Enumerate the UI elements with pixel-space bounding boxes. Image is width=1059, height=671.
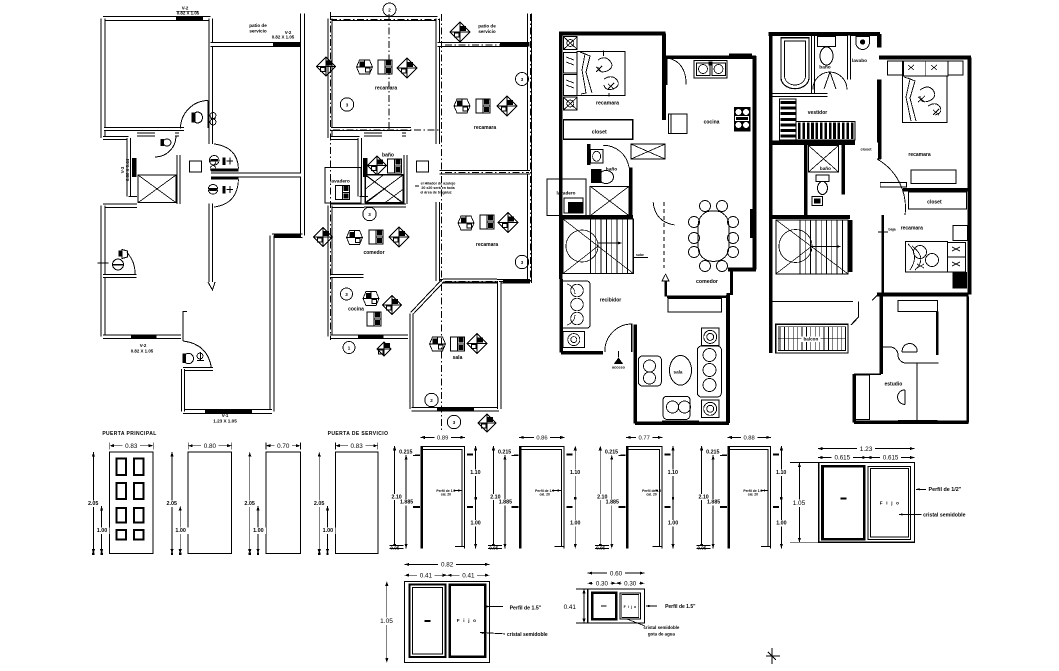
door frame 0.88: bottom 0.05 mark — [695, 546, 708, 552]
W2 right sash fixed (thick) — [450, 585, 486, 657]
P3 acceso arrow — [614, 358, 624, 365]
svg-text:lavadero: lavadero — [330, 179, 350, 185]
door frame 0.86: right jamb (double) — [563, 446, 565, 548]
svg-text:0.41: 0.41 — [564, 604, 577, 611]
P3 staircase — [563, 219, 634, 274]
svg-text:patio de: patio de — [478, 24, 496, 29]
P2 wall: interior wall right of hall upper segment — [436, 131, 441, 145]
svg-text:0.30: 0.30 — [624, 580, 637, 587]
svg-text:comedor: comedor — [696, 279, 718, 285]
W1 left sash (movable, thick) — [823, 466, 865, 539]
P3 label sala — [671, 370, 684, 376]
P3 bed blanket squiggles — [598, 58, 618, 90]
P1 wall: left exterior wall lower — [101, 206, 106, 337]
P3 wall: sala bottom wall — [635, 421, 729, 425]
P2 axis bubble left upper — [340, 98, 353, 111]
P1 wall: niche vertical wall with window V-3 — [126, 138, 131, 197]
P1 wall: small bath top wall segments — [137, 133, 155, 137]
door elevation 0.80: height dim 2.05 — [171, 452, 173, 554]
svg-text:0.89: 0.89 — [437, 435, 448, 441]
P3 sala sofa right (3 seats) — [697, 346, 721, 397]
P1 wall: interior wall right of hall upper — [209, 131, 214, 144]
W1 right sash fixed (double line) — [868, 466, 910, 539]
svg-text:closet: closet — [592, 130, 607, 136]
svg-text:0.05: 0.05 — [596, 546, 605, 551]
svg-text:sube: sube — [636, 253, 644, 257]
ceiling-symbol cluster recamara BR: outlet diamond — [498, 213, 518, 233]
P4 wall: recamara1 top wall — [879, 56, 971, 60]
ceiling-symbol cluster sala: outlet diamond — [467, 334, 487, 354]
P4 label baño lower — [819, 166, 832, 172]
P3 vestibule X-box — [631, 144, 665, 159]
P1 entry WC toilet — [184, 353, 194, 363]
P2 baño symbols: switch square — [388, 159, 402, 173]
P1 divider door arc upper — [214, 144, 238, 169]
P4 wall: estudio left wall upper — [879, 297, 883, 375]
P4 wall corner diagonal near balcon — [851, 317, 859, 325]
svg-text:Perfil de 1.5": Perfil de 1.5" — [665, 604, 696, 610]
svg-text:gota de agua: gota de agua — [648, 632, 676, 637]
P1 wall: niche bottom connector — [129, 196, 138, 198]
W1 dim 1.05 — [798, 463, 800, 543]
P3 washing machine (solid) — [568, 202, 583, 213]
ceiling-symbol cluster sala: switch square — [451, 337, 465, 351]
svg-text:1.885: 1.885 — [707, 500, 720, 506]
svg-text:cocina: cocina — [348, 307, 364, 313]
P3 bedroom nightstand fan bottom — [564, 97, 578, 110]
P1 square fixture (shower box) — [190, 161, 202, 172]
svg-text:cal. 20: cal. 20 — [646, 493, 656, 497]
P3 bed — [577, 51, 625, 95]
svg-text:0.215: 0.215 — [605, 449, 618, 455]
P3 window bar sala bottom — [662, 421, 699, 425]
P1 window V-2 bar on bottom wall — [131, 334, 157, 338]
svg-text:servicio: servicio — [249, 29, 267, 34]
door frame elevation 0.77: width dimension — [626, 436, 662, 438]
door frame 0.89: left dims 2.10 / 1.885 / 0.215 — [394, 446, 396, 549]
P2 outlet diamond patio — [450, 22, 470, 42]
P4 wall: corridor wall stub — [878, 143, 882, 160]
P4 wall: recamara2 bottom wall — [877, 293, 969, 297]
svg-text:estudio: estudio — [885, 382, 903, 388]
door frame elevation 0.88: width dimension — [727, 436, 770, 438]
P3 sala oval coffee table — [670, 356, 692, 386]
door frame elevation 0.89: width dimension — [420, 436, 465, 438]
P2 axis bubble top — [383, 3, 396, 16]
P2 square fixture (shower box) — [417, 161, 429, 172]
P3 sala corner table top — [702, 328, 719, 345]
P2 cocina symbols: switch square — [367, 312, 381, 326]
P3 comedor dining table — [698, 211, 729, 261]
P1 wall: left exterior wall upper — [101, 19, 106, 139]
P2 wall: left exterior wall upper — [328, 19, 333, 139]
svg-text:1.10: 1.10 — [570, 470, 580, 476]
svg-text:1.10: 1.10 — [470, 470, 480, 476]
P2 wall: right exterior wall — [527, 14, 532, 284]
P2 wall below bath X-box — [364, 204, 406, 208]
P2 window bar lower right bedroom — [503, 279, 530, 283]
P2 wall: bottom wall of lower right bedroom — [440, 279, 531, 284]
svg-text:baja: baja — [888, 228, 896, 232]
svg-text:V-2: V-2 — [140, 343, 147, 348]
P2 cocina symbols: lamp hexagon — [363, 292, 379, 306]
W2 dim 0.82 — [405, 563, 490, 565]
svg-text:acceso: acceso — [612, 366, 626, 370]
svg-text:closet: closet — [861, 148, 873, 152]
P4 estudio desk return — [916, 363, 918, 422]
door elevation 0.83: height dim 2.05 — [92, 452, 94, 554]
W1 handle dash — [841, 498, 847, 500]
ceiling-symbol cluster sala: lamp hexagon — [430, 337, 446, 351]
svg-text:1.885: 1.885 — [606, 500, 619, 506]
W3 left sash (thick) — [592, 593, 616, 619]
door frame elevation 0.86: width dimension — [519, 436, 565, 438]
P4 estudio desk — [881, 347, 939, 363]
door frame 0.86: head — [519, 445, 565, 447]
P3 wall: bath right wall — [629, 167, 633, 216]
door frame 0.77: left dims 2.10 / 1.885 / 0.215 — [599, 446, 601, 549]
svg-text:1.23 X 1.05: 1.23 X 1.05 — [213, 419, 237, 424]
P2 washer squares in lavadero — [336, 186, 350, 200]
P2 lavadero room outline — [325, 168, 361, 203]
P3 comedor console rect — [668, 299, 721, 313]
P1 wall: right wall of upper-left bedroom — [208, 19, 213, 131]
door frame 0.89: left jamb (thick) — [420, 447, 423, 549]
P4 wall: toilet-lavabo divider — [847, 36, 851, 80]
P4 wall: bath2 left wall — [804, 145, 808, 217]
P1 wall: patio top wall of right bedroom — [211, 42, 303, 47]
ceiling-symbol cluster recamara TL: switch square — [378, 60, 392, 74]
W2 dims 0.41 + 0.41 — [405, 574, 448, 576]
P3 wall: recibidor bottom wall — [561, 351, 603, 355]
P1 toilet in upper-left bedroom — [193, 112, 203, 123]
svg-text:0.05: 0.05 — [390, 546, 399, 551]
svg-text:recamara: recamara — [375, 86, 397, 92]
P3 wall: stairs top wall — [561, 215, 633, 219]
ceiling-symbol cluster recamara R: switch square — [476, 99, 490, 113]
ceiling-symbol cluster recamara TL: lamp hexagon — [357, 60, 373, 74]
svg-text:1.00: 1.00 — [323, 528, 334, 534]
P4 wall: right exterior wall — [968, 58, 972, 295]
P3 lavadero room outline — [547, 179, 586, 216]
svg-text:0.77: 0.77 — [639, 435, 650, 441]
P1 lavabo cone in lower bath — [119, 251, 122, 257]
P4 bath2 shower X-box — [809, 146, 839, 173]
P2 wall: sala diagonal corner wall — [412, 281, 443, 314]
window elevation W3 (0.60 x 0.41): outer frame — [588, 589, 645, 623]
door frame 0.86: bottom 0.05 mark — [487, 546, 500, 552]
svg-text:0.615: 0.615 — [883, 455, 899, 462]
svg-text:0.05: 0.05 — [489, 546, 498, 551]
svg-text:baño: baño — [820, 166, 831, 171]
P2 wall: niche step horizontal — [330, 136, 360, 140]
P3 wall: sala left wall — [633, 325, 637, 424]
P2 wall: step wall below niche — [330, 203, 364, 208]
P4 recamara1 bed — [902, 76, 947, 123]
P4 bathtub — [781, 38, 809, 89]
svg-text:recamara: recamara — [476, 242, 498, 248]
P2 axis bubble below sala — [447, 415, 460, 428]
P3 wall: top wall bedroom — [559, 32, 666, 36]
P4 staircase upper — [776, 220, 848, 274]
P4 bath2 toilet — [816, 175, 829, 182]
door frame 0.86: right dims 1.10 / 1.00 — [574, 446, 576, 549]
P3 wall: kitchen left wall + door — [665, 57, 668, 85]
P1 wall: right exterior wall lower — [270, 236, 275, 412]
svg-text:cristal semidoble: cristal semidoble — [923, 513, 965, 519]
P1 window V-2 bar on top wall — [176, 16, 203, 21]
P3 wall: left exterior wall — [559, 34, 563, 280]
svg-text:cocina: cocina — [704, 120, 720, 126]
P2 wall: top wall of upper-left bedroom — [330, 16, 438, 21]
door elevation 0.83: dim 1.00 — [101, 506, 103, 554]
svg-text:cal. 20: cal. 20 — [540, 493, 550, 497]
P4 wall: tub-toilet divider — [811, 36, 815, 94]
P3 wall: comedor bottom wall — [667, 295, 728, 298]
P1 divider door symbol circle lower — [208, 185, 218, 195]
svg-text:closet: closet — [927, 200, 942, 206]
P3 bedroom nightstand fan top — [564, 37, 578, 50]
P1 wall: bottom wall of upper-left bedroom — [104, 127, 184, 131]
P4 closet hatch left block — [780, 99, 797, 140]
P2 axis bubble center — [363, 207, 376, 220]
P1 wall: lower bath wall — [103, 274, 137, 278]
door elevation 0.83: leaf rectangle — [110, 452, 154, 554]
P2 wall: niche bottom connector — [360, 196, 369, 198]
svg-text:comedor: comedor — [363, 250, 384, 256]
P2 wall: sala bottom wall — [412, 407, 500, 412]
P1 divider door symbol circle upper — [209, 156, 219, 166]
svg-text:1.885: 1.885 — [400, 500, 413, 506]
door frame 0.86: left dims 2.10 / 1.885 / 0.215 — [492, 446, 494, 549]
P2 wall: patio top wall of right bedroom — [438, 42, 530, 47]
svg-text:1.00: 1.00 — [253, 528, 264, 534]
svg-text:0.41: 0.41 — [462, 572, 475, 579]
P2 cocina symbols: outlet diamond — [383, 296, 402, 315]
P3 wall: comedor right wall step — [730, 270, 733, 296]
P4 door jamb diagonal estudio — [872, 295, 878, 301]
svg-text:0.05: 0.05 — [697, 546, 706, 551]
door panels (8 lites) — [117, 459, 126, 475]
P2 wall: bottom wall of lower-left room — [330, 334, 408, 339]
door elevation 0.80: width dimension — [188, 445, 231, 447]
P4 recamara1 side table right — [948, 61, 963, 75]
svg-text:recibidor: recibidor — [600, 298, 621, 304]
P1 window bar on patio wall — [273, 42, 301, 47]
P4 wall: estudio bottom wall — [854, 420, 969, 424]
P1 closet X-box — [138, 175, 176, 203]
P2 wall: sala left wall — [410, 313, 414, 409]
svg-text:2.05: 2.05 — [314, 501, 325, 507]
P4 balcon railing grid — [776, 324, 848, 353]
P1 fixture codes right wall — [210, 159, 216, 165]
door frame 0.89: bottom 0.05 mark — [388, 546, 401, 552]
svg-text:2.05: 2.05 — [88, 501, 99, 507]
P4 wall: estudio right inner wall — [936, 311, 939, 355]
P1 divider door black jambs — [211, 168, 239, 171]
svg-text:PUERTA DE SERVICIO: PUERTA DE SERVICIO — [328, 431, 389, 437]
P4 label balcon — [801, 337, 820, 343]
P2 window bar sala bottom — [437, 407, 474, 411]
W2 left sash (thick with inner line) — [409, 585, 445, 658]
svg-text:0.83: 0.83 — [125, 443, 138, 450]
svg-text:el Hilador de azulejo: el Hilador de azulejo — [421, 182, 457, 186]
P2 baño symbols: diamond — [368, 156, 387, 175]
P1 wall: porch left wall — [181, 369, 185, 412]
W2 handle dash — [425, 620, 431, 622]
P3 wall: kitchen top wall — [666, 56, 756, 60]
svg-text:cal. 20: cal. 20 — [748, 493, 758, 497]
svg-text:20 x20 será en toda: 20 x20 será en toda — [421, 186, 455, 190]
P1 wall: step wall with window — [272, 233, 303, 238]
W3 right sash fixed — [620, 593, 641, 619]
door elevation 0.80: dim 1.00 — [179, 506, 181, 554]
P4 recamara1 headboard — [903, 61, 948, 76]
door frame 0.89: right dims 1.10 / 1.00 — [475, 446, 477, 549]
svg-text:cristal semidoble: cristal semidoble — [643, 625, 679, 630]
svg-text:0.30: 0.30 — [596, 580, 609, 587]
P2 axis bubble sala interior — [425, 393, 438, 406]
P1 wall: right exterior wall upper — [300, 14, 305, 236]
svg-text:F i j o: F i j o — [624, 605, 637, 609]
door frame 0.88: left jamb (thick) — [727, 447, 730, 549]
door frame 0.88: left dims 2.10 / 1.885 / 0.215 — [701, 446, 703, 549]
P4 door arc recamara1 — [877, 159, 905, 215]
P3 kitchen stove — [734, 107, 751, 131]
P1 wall: interior wall right of hall lower — [209, 203, 214, 282]
svg-text:1.10: 1.10 — [668, 470, 678, 476]
window elevation W2 (0.82 x 1.05): outer frame — [405, 581, 490, 662]
svg-text:1.23: 1.23 — [860, 446, 873, 453]
svg-text:1.885: 1.885 — [499, 500, 512, 506]
ceiling-symbol cluster recamara TL: outlet diamond — [397, 58, 417, 78]
svg-text:lavadero: lavadero — [557, 191, 576, 196]
P4 recamara2 bed — [906, 242, 948, 273]
svg-text:0.215: 0.215 — [498, 449, 511, 455]
P3 window bar comedor right wall — [750, 209, 754, 238]
svg-text:el área de tragaluz: el área de tragaluz — [420, 191, 452, 195]
P3 kitchen fridge — [669, 114, 688, 134]
P3 closet rectangle — [564, 120, 633, 140]
W3 dim 0.60 — [588, 572, 645, 574]
P2 wall: divider between right bedrooms — [440, 170, 531, 175]
svg-text:1.00: 1.00 — [776, 521, 786, 527]
P3 sala loveseat left — [638, 356, 661, 386]
P1 wall: bottom wall of entry porch — [183, 409, 272, 414]
door elevation 0.70: height dim 2.05 — [249, 452, 251, 554]
P3 sala corner table bottom — [702, 400, 719, 417]
P2 outlet diamond left wall lower — [314, 228, 333, 247]
svg-text:vestidor: vestidor — [808, 110, 828, 116]
P4 wall: estudio left wall lower — [852, 374, 856, 422]
P4 window bar estudio bottom — [898, 420, 937, 424]
P2 wall: right wall of upper-left bedroom — [435, 19, 440, 131]
P1 wall: top wall of upper-left bedroom — [103, 16, 211, 21]
P4 estudio bookshelf — [855, 375, 870, 420]
svg-text:0.70: 0.70 — [277, 443, 290, 450]
svg-text:0.60 X 0.44: 0.60 X 0.44 — [125, 158, 130, 181]
P2 wall: left exterior wall lower — [328, 206, 333, 337]
P3 wall: left wall lower end — [559, 279, 563, 353]
svg-text:baño: baño — [382, 153, 394, 159]
P4 recamara2 pillows — [948, 243, 966, 273]
P1 wall: bottom wall of lower-left room — [103, 334, 181, 339]
svg-text:patio de: patio de — [249, 23, 267, 28]
P4 wall: stairs top wall — [772, 215, 850, 219]
P3 stairs direction arrow — [598, 242, 620, 244]
P4 wall: vestidor top wall — [772, 93, 827, 97]
door frame 0.86: left jamb (thick) — [519, 447, 522, 549]
svg-text:2.05: 2.05 — [167, 501, 178, 507]
P3 bath shower X-box — [590, 186, 629, 215]
P4 wall: bath2 right wall — [842, 145, 846, 195]
P1 door arc into upper-left bedroom — [181, 101, 209, 129]
P4 shelf by door — [880, 183, 906, 187]
P4 wall: estudio outer right wall — [966, 297, 969, 423]
svg-text:0.82 X 1.05: 0.82 X 1.05 — [131, 349, 154, 354]
svg-text:2.05: 2.05 — [244, 501, 255, 507]
svg-text:sala: sala — [674, 370, 683, 375]
P4 toilet top bath — [818, 37, 836, 47]
P3 bath door arc — [603, 145, 629, 167]
door frame 0.88: right dims 1.10 / 1.00 — [780, 446, 782, 549]
window elevation W1 (1.23 x 1.05): outer frame — [819, 463, 915, 543]
P4 double door arcs bath — [813, 72, 830, 89]
door elevation 0.83: leaf rectangle — [336, 452, 378, 554]
P1 wall: below entry door — [183, 367, 213, 371]
P4 recamara2 side tables — [953, 226, 968, 241]
P1 fixture code circles — [210, 113, 216, 119]
door elevation 0.70: leaf rectangle — [266, 452, 300, 554]
P4 closet hatch bottom block — [796, 122, 855, 141]
survey cross mark bottom right — [766, 648, 780, 664]
P1 window V-3 bar (vertical) — [132, 158, 137, 177]
P3 bed headboard pillows — [564, 52, 578, 73]
svg-text:0.82 X 1.05: 0.82 X 1.05 — [272, 35, 295, 40]
svg-text:1.10: 1.10 — [776, 470, 786, 476]
svg-text:F i j o: F i j o — [880, 501, 900, 506]
ceiling-symbol cluster recamara BR: switch square — [480, 215, 494, 229]
P4 landing line — [772, 301, 853, 303]
P3 window bar kitchen top — [729, 53, 752, 57]
P2 outlet diamond left wall upper — [317, 57, 336, 76]
svg-text:baño: baño — [819, 65, 831, 71]
P4 recamara1 side table left — [888, 61, 903, 75]
P2 axis bubble cocina — [341, 288, 353, 300]
svg-text:recamara: recamara — [474, 125, 496, 131]
P4 closet rect — [909, 192, 967, 209]
svg-text:cristal semidoble: cristal semidoble — [507, 632, 548, 638]
P2 outlet diamond below bottom wall — [377, 342, 391, 356]
svg-text:1.00: 1.00 — [175, 528, 186, 534]
P3 sala loveseat bottom — [663, 396, 690, 419]
P2 window bar on patio wall — [500, 42, 528, 47]
ceiling-symbol cluster recamara R: outlet diamond — [497, 96, 517, 116]
P3 wall: comedor bottom exterior — [728, 268, 756, 272]
P1 bath door arc — [155, 136, 176, 157]
P2 wall: lower bath wall — [330, 274, 364, 278]
door elevation 0.70: width dimension — [266, 445, 300, 447]
door frame 0.77: right dims 1.10 / 1.00 — [672, 446, 674, 549]
door elevation 0.83: dim 1.00 — [327, 506, 329, 554]
P4 bath2 washbasin — [812, 196, 823, 205]
door frame 0.77: left jamb (thick) — [626, 447, 629, 549]
W3 dims 0.30 + 0.30 — [588, 582, 616, 584]
P1 door jamb point at hall — [208, 282, 215, 290]
P3 tragaluz dashed line — [663, 202, 665, 268]
svg-text:cal. 20: cal. 20 — [441, 493, 451, 497]
P2 window bar top right wall — [502, 42, 529, 47]
